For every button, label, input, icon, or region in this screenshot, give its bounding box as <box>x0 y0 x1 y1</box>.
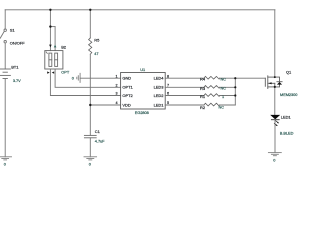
wire left branch top <box>4 10 6 29</box>
wire B2 branch from rail <box>49 10 51 27</box>
svg-text:R1: R1 <box>200 94 206 99</box>
wire B2 split jog <box>50 26 55 28</box>
wire C1 to ground <box>89 138 91 157</box>
wire B2 left bottom pin to OPT2 row <box>50 69 120 96</box>
IC U1 EG2808 <box>121 73 166 110</box>
svg-text:C1: C1 <box>95 129 101 134</box>
node bus row3 <box>234 94 236 96</box>
wire bus to gate <box>235 77 265 79</box>
node bus row1 <box>234 77 236 79</box>
svg-text:0: 0 <box>89 162 92 167</box>
svg-text:LED1: LED1 <box>154 102 165 107</box>
node source/diode <box>274 86 276 88</box>
wire source to LED1 <box>274 87 276 115</box>
battery BT1 <box>0 69 10 79</box>
svg-text:Q1: Q1 <box>286 69 292 74</box>
transistor Q1 body arrow <box>269 82 272 84</box>
wire gate bus <box>234 78 236 105</box>
diode LED1 cathode bar <box>271 119 279 121</box>
svg-text:47: 47 <box>94 51 98 56</box>
svg-text:LED3: LED3 <box>154 85 165 90</box>
transistor Q1 MEM2300 <box>265 76 282 89</box>
wire VDD row pin 4 <box>90 104 120 106</box>
svg-text:S1: S1 <box>10 27 16 32</box>
wire switch to battery <box>4 43 6 69</box>
node VDD/C1 <box>89 104 91 106</box>
svg-text:NC: NC <box>221 86 227 91</box>
svg-text:0: 0 <box>4 162 7 167</box>
node rail/B2 <box>49 9 51 11</box>
svg-text:U1: U1 <box>140 67 145 72</box>
resistor R4 <box>204 76 219 79</box>
svg-text:NC: NC <box>219 105 225 110</box>
wire R5 branch from rail <box>89 10 91 38</box>
svg-text:8: 8 <box>167 74 169 78</box>
svg-text:2: 2 <box>116 83 118 87</box>
svg-text:LED4: LED4 <box>154 76 165 81</box>
opto B2 arrows bottom <box>47 71 54 73</box>
opto B2 arrows top <box>49 45 52 48</box>
wire R1 to bus <box>220 95 236 97</box>
wire drain to rail <box>274 10 276 77</box>
resistor R1 <box>204 94 219 97</box>
svg-text:7: 7 <box>167 83 169 87</box>
resistor R2 <box>204 103 219 106</box>
svg-text:4.7uF: 4.7uF <box>95 139 105 144</box>
svg-text:OPT1: OPT1 <box>122 85 133 90</box>
svg-text:4: 4 <box>116 101 118 105</box>
svg-text:ON/OFF: ON/OFF <box>10 41 25 46</box>
ground (C1) <box>84 157 97 160</box>
node bus row2 <box>234 86 236 88</box>
svg-text:LED2: LED2 <box>154 93 165 98</box>
wire B2 right bottom pin to OPT1 row <box>55 69 121 87</box>
wire GND row pin 1 <box>80 77 121 79</box>
svg-text:3.7V: 3.7V <box>13 78 21 83</box>
svg-text:OPT2: OPT2 <box>122 93 133 98</box>
svg-text:0: 0 <box>273 157 276 162</box>
svg-text:1: 1 <box>116 74 118 78</box>
ground (GND pin, sideways) <box>77 73 80 82</box>
svg-text:3: 3 <box>116 92 118 96</box>
svg-text:R3: R3 <box>200 86 206 91</box>
svg-text:LED1: LED1 <box>281 115 292 120</box>
svg-text:6: 6 <box>167 92 169 96</box>
wire LED4 row pin 8 <box>165 77 204 79</box>
wire R5 to VDD node <box>89 54 91 105</box>
resistor R5 <box>89 38 92 54</box>
svg-text:B.BLED: B.BLED <box>280 131 294 136</box>
svg-text:R4: R4 <box>200 77 206 82</box>
wire LED1 to ground <box>274 120 276 153</box>
svg-text:EG2808: EG2808 <box>135 110 149 115</box>
svg-text:MEM2300: MEM2300 <box>280 92 298 97</box>
svg-text:1: 1 <box>222 94 224 99</box>
switch S1 <box>0 29 6 43</box>
svg-text:OPT: OPT <box>61 70 70 75</box>
wire B2 right top pin <box>54 27 56 51</box>
wire battery to ground <box>4 79 6 157</box>
wire top rail <box>5 9 275 11</box>
transistor Q1 body diode <box>277 82 282 85</box>
svg-text:NC: NC <box>221 76 227 81</box>
ground (battery) <box>0 157 12 160</box>
svg-text:GND: GND <box>122 76 131 81</box>
svg-text:R2: R2 <box>200 105 206 110</box>
wire R2 to bus <box>220 104 236 106</box>
resistor R3 <box>204 86 219 89</box>
wire B2 left top pin <box>49 27 51 51</box>
ground (LED1) <box>268 153 281 156</box>
wire R4 to bus <box>220 77 236 79</box>
svg-text:5: 5 <box>167 101 169 105</box>
svg-text:VDD: VDD <box>122 102 130 107</box>
svg-text:B2: B2 <box>61 45 67 50</box>
wire VDD node to C1 <box>89 105 91 135</box>
node B2 split <box>49 25 51 27</box>
wire LED1 row pin 5 <box>165 104 204 106</box>
wire LED3 row pin 7 <box>165 86 204 88</box>
wire R3 to bus <box>220 86 236 88</box>
svg-text:R5: R5 <box>94 37 100 42</box>
opto sensor B2 <box>45 51 63 69</box>
node drain/diode <box>274 76 276 78</box>
svg-text:BT1: BT1 <box>11 64 19 69</box>
capacitor C1 <box>84 135 96 137</box>
svg-text:0: 0 <box>72 75 75 80</box>
diode LED1 <box>270 115 280 120</box>
node rail/R5 <box>89 9 91 11</box>
LED1 emission arrows <box>274 121 278 126</box>
wire LED2 row pin 6 <box>165 95 204 97</box>
